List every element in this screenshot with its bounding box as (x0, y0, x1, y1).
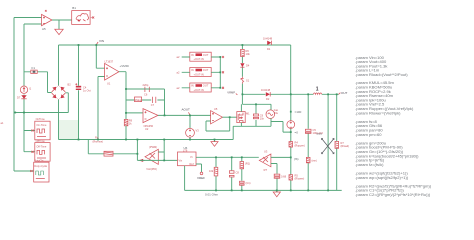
svg-text:+VMID: +VMID (120, 64, 130, 68)
svg-text:U6: U6 (184, 146, 188, 150)
output cap branch (307, 94, 309, 190)
resistor R11 (209, 157, 218, 190)
svg-text:C8: C8 (236, 171, 240, 175)
diode D7 (21, 95, 26, 99)
wire return bus (15, 112, 68, 114)
svg-text:U5: U5 (214, 107, 218, 111)
wire bridge top to rail (58, 45, 60, 86)
output divider chain (290, 94, 292, 190)
PWM amp U4 (139, 145, 159, 171)
svg-text:+OUT-IN: +OUT-IN (194, 88, 204, 92)
current source I1 (17, 86, 32, 100)
svg-text:DutyCle: DutyCle (34, 158, 44, 162)
modules row 3 (177, 83, 225, 92)
svg-text:A5: A5 (42, 27, 46, 31)
svg-text:C7: C7 (151, 103, 155, 107)
svg-text:Vt: Vt (190, 155, 193, 159)
wire U1 - input (98, 77, 105, 140)
resistor Rload (335, 141, 349, 148)
op-amp A5 (42, 10, 53, 31)
port VREF (200, 172, 203, 175)
svg-text:VtoI(PID): VtoI(PID) (146, 167, 157, 171)
svg-text:.param pm=60: .param pm=60 (355, 132, 382, 137)
svg-text:.param C2=((Rl*gm)/(2*pi*fs*10: .param C2=((Rl*gm)/(2*pi*fs*10*(Rl+Ru))) (355, 192, 431, 197)
lower rail with Rsense (88, 140, 137, 154)
pulse box 3 Duty-Cycle (30, 158, 49, 182)
cap C7 (151, 97, 156, 107)
svg-text:VREF: VREF (197, 176, 205, 180)
svg-text:(esr): (esr) (312, 159, 317, 163)
svg-text:.param Rlower=(Vref/Ipk): .param Rlower=(Vref/Ipk) (355, 110, 401, 115)
svg-text:.param Rload=(Vout**2/Pout): .param Rload=(Vout**2/Pout) (355, 72, 408, 77)
svg-text:10k: 10k (246, 52, 251, 56)
diode D2 (261, 88, 271, 101)
svg-text:V3: V3 (196, 129, 200, 133)
wire A5 out (52, 20, 72, 29)
wire bridge bottom down (58, 100, 60, 140)
wire U2 out to U5 (158, 114, 211, 116)
resistor R9 (124, 113, 143, 140)
svg-text:M1: M1 (246, 112, 250, 116)
modules row 1 (177, 52, 225, 61)
svg-text:(fb): (fb) (294, 157, 299, 161)
svg-text:C6: C6 (144, 93, 148, 97)
svg-text:IN: IN (191, 68, 194, 72)
wire to fuse (24, 72, 52, 93)
svg-text:Off-Time: Off-Time (36, 144, 47, 148)
ground rail (185, 189, 342, 191)
node VIN label (96, 39, 104, 45)
ground G2 (211, 140, 218, 147)
cap C5 (305, 128, 323, 135)
svg-text:OUT: OUT (341, 91, 348, 95)
block U6 (178, 146, 197, 166)
svg-text:OUT: OUT (203, 53, 209, 57)
svg-text:1N4148: 1N4148 (263, 37, 273, 41)
cap C6 220p (141, 83, 153, 97)
svg-text:B1: B1 (72, 6, 76, 10)
svg-text:VIN: VIN (99, 39, 104, 43)
box B1 modulator (72, 6, 90, 25)
node OUT (339, 91, 348, 95)
resistor Resr (306, 157, 317, 162)
source V4 (266, 108, 279, 118)
wire U5 out (223, 116, 237, 118)
svg-text:U1: U1 (107, 82, 111, 86)
svg-text:(Rupper): (Rupper) (295, 144, 305, 148)
load branch (336, 94, 338, 190)
source V5 (287, 110, 302, 161)
svg-text:Vin: Vin (179, 159, 183, 163)
svg-text:OUT: OUT (203, 68, 209, 72)
mid rail (59, 139, 234, 141)
svg-text:U2: U2 (145, 127, 149, 131)
main mid bus (242, 93, 338, 95)
highlight area (59, 120, 79, 140)
injection branch (327, 94, 329, 190)
spice directives text block (355, 55, 431, 197)
fuse F1 (31, 66, 37, 74)
svg-text:OffTime: OffTime (36, 139, 46, 143)
svg-text:+OUT-IN: +OUT-IN (194, 57, 204, 61)
feedback loop wires (126, 89, 165, 119)
svg-text:1N4148: 1N4148 (261, 88, 271, 92)
svg-text:1Meg: 1Meg (135, 98, 142, 102)
svg-text:OnTime: OnTime (36, 117, 46, 121)
svg-text:1u Ovt: 1u Ovt (83, 88, 91, 92)
mosfet M1 (237, 104, 250, 126)
node AOUT (182, 107, 191, 115)
wire to divider (271, 122, 291, 133)
diode bridge D3-D6 (52, 83, 72, 100)
op-amp U2 comparator (143, 109, 158, 131)
svg-text:(PWM): (PWM) (149, 145, 157, 149)
svg-text:B2: B2 (68, 83, 72, 87)
source V3 (186, 115, 200, 139)
svg-text:0.01 Ohm: 0.01 Ohm (205, 193, 219, 197)
ground G1 (55, 29, 63, 34)
svg-text:D7: D7 (17, 96, 21, 100)
svg-text:IN: IN (191, 84, 194, 88)
cap C9 (253, 104, 264, 126)
cap C8 (229, 157, 239, 190)
svg-text:Duty-Cycle: Duty-Cycle (34, 164, 47, 168)
svg-text:U3: U3 (264, 150, 268, 154)
module bus (219, 57, 221, 88)
vref rail (196, 156, 259, 158)
svg-text:(C1): (C1) (246, 181, 251, 185)
resistor Rupper (289, 141, 305, 148)
error amp U3 (259, 150, 271, 172)
wire PWM top input (158, 140, 164, 161)
wire U6 bottom to gnd rail (184, 166, 186, 191)
svg-text:50u: 50u (274, 111, 279, 115)
svg-text:LT1637: LT1637 (105, 60, 114, 64)
svg-text:=100: =100 (295, 110, 302, 114)
wire PWM output node (137, 154, 177, 161)
svg-text:220p: 220p (143, 83, 149, 87)
gate top rail (242, 94, 271, 110)
pulse box 1 On-Time (32, 117, 51, 140)
wire U1 + input (96, 45, 104, 68)
cap C11 (274, 174, 286, 178)
svg-text:Ref: Ref (190, 162, 194, 166)
svg-text:D2: D2 (266, 97, 270, 101)
svg-text:0.68: 0.68 (281, 175, 287, 179)
wire U1 out (119, 72, 126, 89)
stub B1 right (90, 17, 93, 19)
op-amp U5 (211, 107, 223, 124)
resistor Rlower (289, 174, 304, 181)
svg-text:AOUT: AOUT (182, 107, 191, 111)
gate bottom rail (233, 118, 271, 139)
svg-text:D1: D1 (267, 47, 271, 51)
wire left input B (24, 24, 42, 152)
svg-text:=0: =0 (295, 131, 299, 135)
svg-text:.param fz=(fs/k): .param fz=(fs/k) (355, 162, 384, 167)
cap C4 (75, 45, 91, 140)
main top rail VIN (59, 45, 291, 94)
svg-text:VRMP: VRMP (227, 90, 235, 94)
svg-text:OUT: OUT (203, 84, 209, 88)
inductor L1 (313, 87, 321, 95)
probe X (321, 138, 334, 154)
resistor Rsense (93, 135, 114, 156)
switch S1 (240, 77, 244, 84)
svg-text:.param wp=(sqrt((fs2/fp2)+1)): .param wp=(sqrt((fs2/fp2)+1)) (355, 175, 409, 180)
svg-text:(Rlower): (Rlower) (295, 177, 305, 181)
pulse box 2 Off-Time (32, 139, 51, 161)
svg-text:On-Time: On-Time (36, 123, 47, 127)
diode D4 (240, 63, 244, 67)
svg-text:D4: D4 (246, 64, 250, 68)
svg-text:10n: 10n (260, 117, 265, 121)
svg-text:gm: gm (264, 169, 268, 172)
wire U3 + to divider (271, 156, 291, 158)
svg-text:(out): (out) (317, 132, 322, 136)
svg-text:(Rload): (Rload) (341, 144, 350, 148)
U5 feedback (206, 117, 230, 131)
wire bridge right vertex (66, 93, 69, 113)
modules row 2 (177, 68, 225, 77)
svg-text:IN: IN (191, 53, 194, 57)
source V5 (287, 121, 295, 129)
resistor R6, diode D4, switch S1 chain (240, 45, 250, 94)
svg-text:10k: 10k (209, 169, 214, 173)
svg-text:(R1): (R1) (245, 162, 250, 166)
wire U3 - comp network (271, 164, 277, 191)
svg-text:+OUT-IN: +OUT-IN (194, 72, 204, 76)
ground G3 (273, 190, 280, 196)
wire left input A (14, 18, 42, 172)
resistor R12 + cap C10 (240, 157, 251, 190)
resistor R8 box (135, 97, 142, 102)
svg-text:1: 1 (316, 87, 319, 93)
op-amp U1 (105, 60, 130, 86)
diode D1 on top rail (263, 37, 273, 52)
svg-text:F1: F1 (32, 66, 36, 70)
svg-text:S1: S1 (246, 79, 250, 83)
node VREF (196, 164, 205, 180)
